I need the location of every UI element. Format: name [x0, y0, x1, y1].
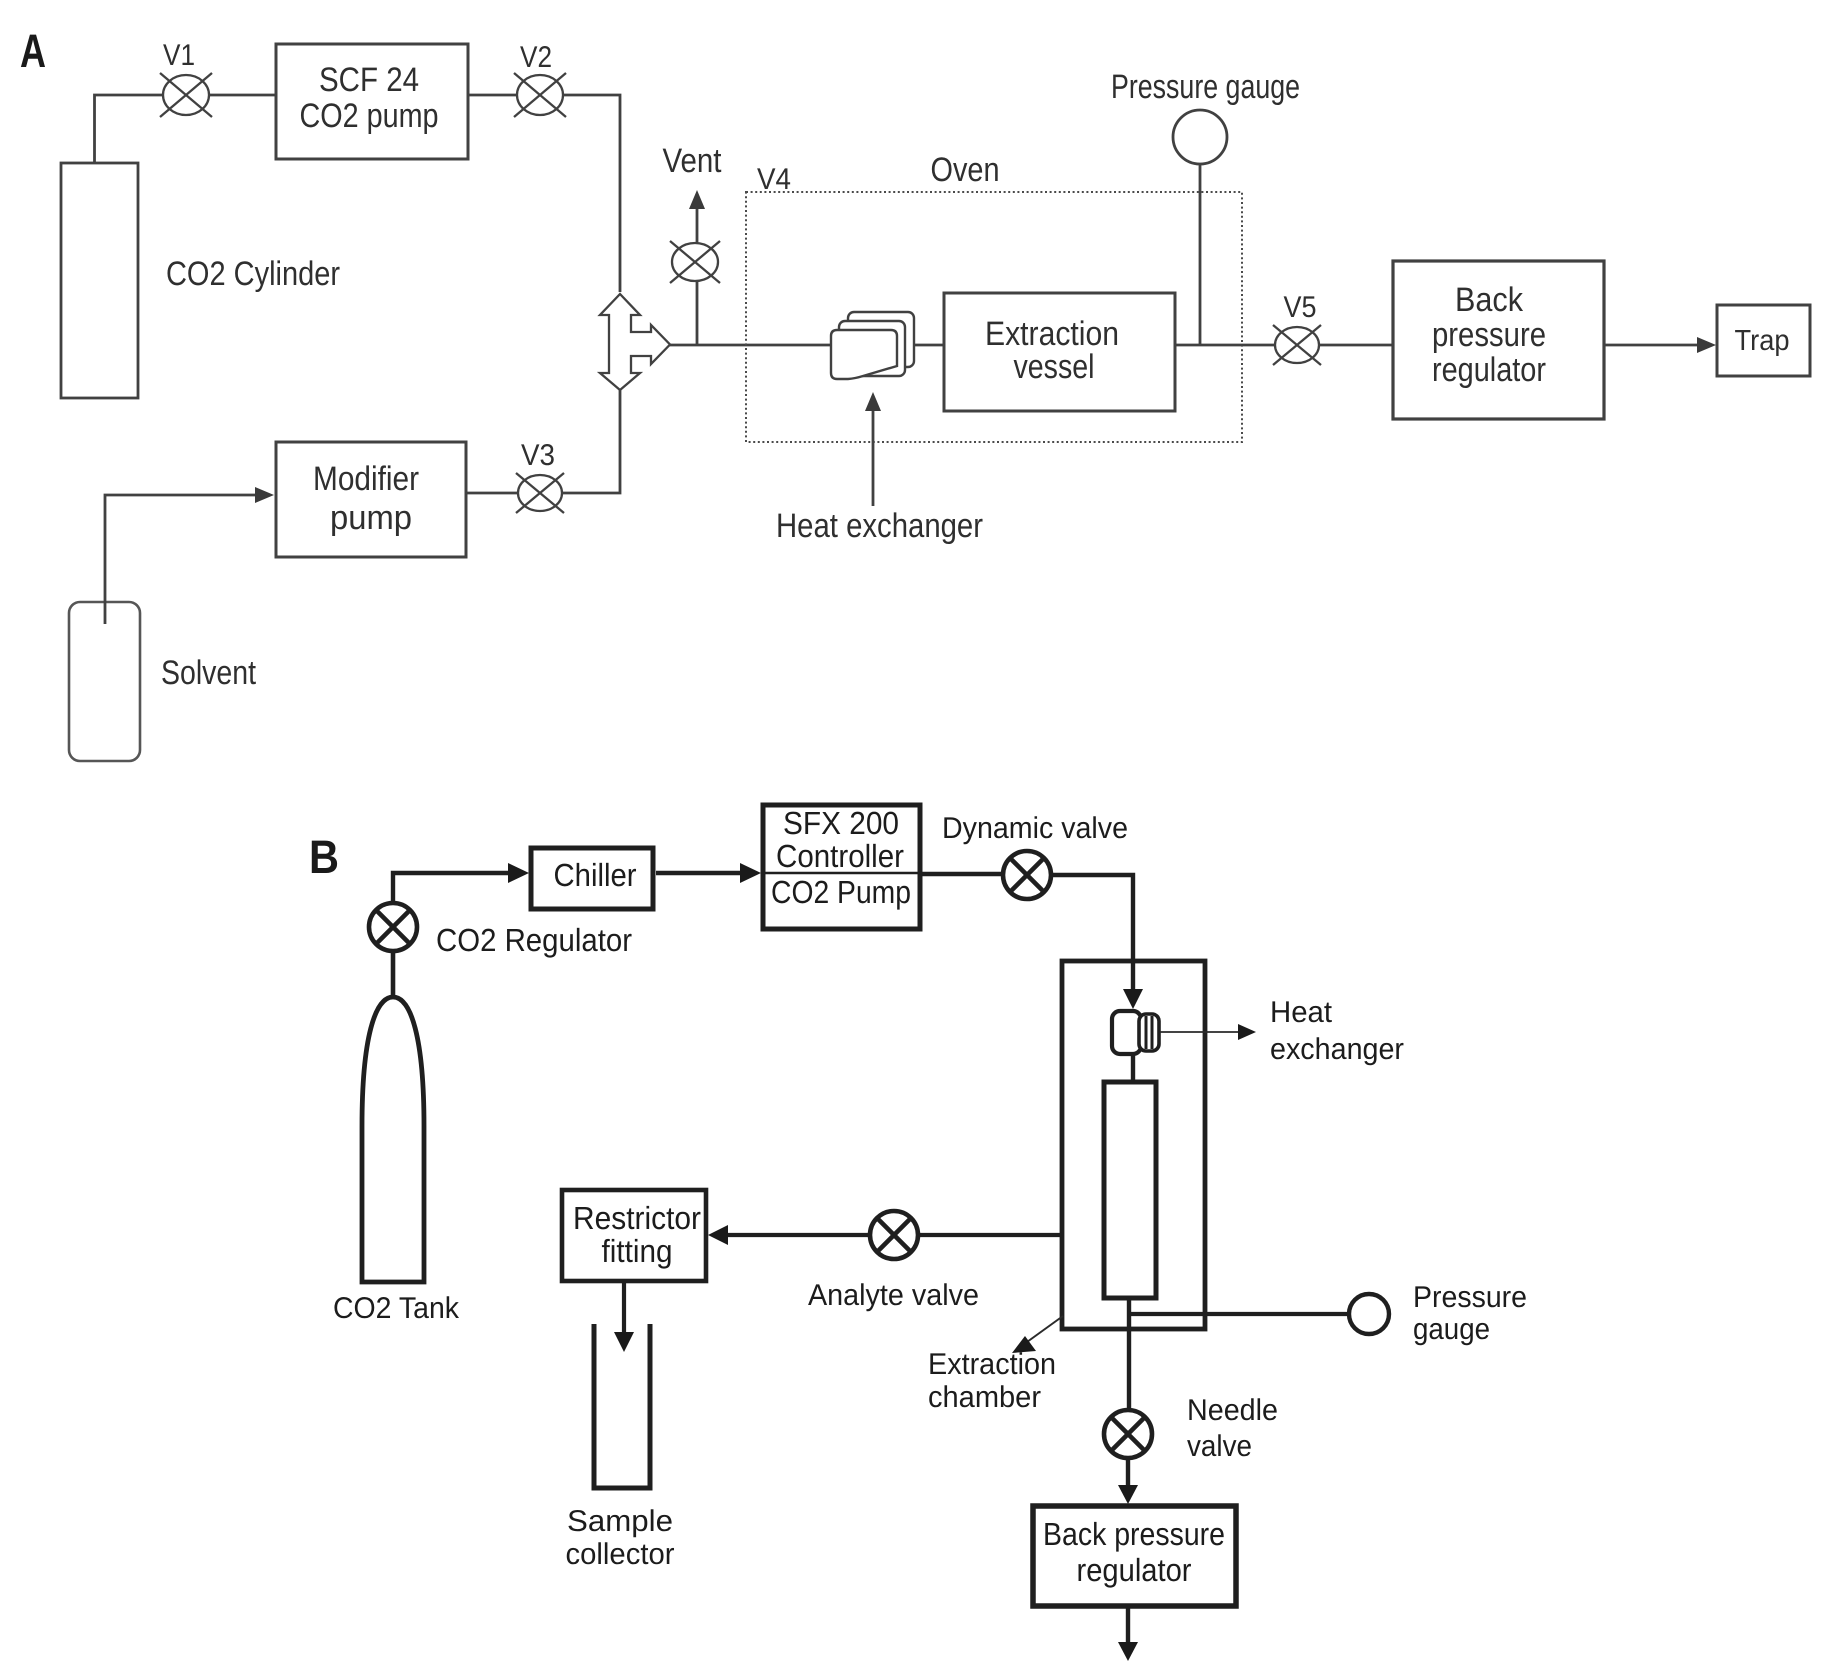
gauge line B — [1129, 1312, 1349, 1316]
wire pump to V3 — [466, 492, 518, 495]
svg-text:CO2 pump: CO2 pump — [300, 97, 439, 135]
valve V1 — [160, 73, 212, 117]
svg-text:Modifier: Modifier — [313, 460, 419, 498]
wire needle valve to regulator B — [1126, 1458, 1130, 1489]
wire chiller to controller — [656, 871, 745, 875]
trap box — [1717, 305, 1810, 376]
svg-text:Pressure: Pressure — [1413, 1281, 1527, 1314]
arrow regulator to trap — [1604, 344, 1700, 347]
wire V5 to regulator — [1319, 344, 1393, 347]
CO2 regulator valve — [369, 903, 417, 951]
svg-text:Analyte valve: Analyte valve — [808, 1279, 979, 1312]
valve V3 — [516, 473, 564, 513]
oven dashed box — [746, 192, 1242, 442]
wire vessel to V5 — [1175, 344, 1276, 347]
CO2 cylinder — [61, 163, 138, 398]
sample collector beaker — [594, 1324, 650, 1488]
svg-text:V2: V2 — [520, 41, 552, 74]
pressure gauge — [1173, 110, 1227, 164]
svg-text:Needle: Needle — [1187, 1394, 1278, 1427]
svg-text:regulator: regulator — [1432, 351, 1546, 389]
restrictor fitting box — [562, 1190, 706, 1281]
pressure gauge B — [1349, 1294, 1389, 1334]
svg-text:V4: V4 — [757, 163, 791, 196]
svg-text:Controller: Controller — [776, 838, 904, 874]
svg-text:fitting: fitting — [602, 1233, 673, 1269]
svg-text:CO2 Cylinder: CO2 Cylinder — [166, 255, 340, 293]
back pressure regulator box B — [1033, 1506, 1236, 1606]
back pressure regulator box A — [1393, 261, 1604, 419]
wire regulator valve to chiller — [393, 873, 512, 903]
vent line — [696, 281, 699, 345]
wire V2 to mixer — [563, 95, 620, 292]
svg-text:V5: V5 — [1284, 291, 1317, 324]
wire heat exchanger to inner vessel — [1131, 1054, 1135, 1082]
SFX 200 controller CO2 pump box — [763, 805, 920, 929]
svg-text:vessel: vessel — [1014, 348, 1095, 386]
svg-text:Extraction: Extraction — [928, 1348, 1056, 1381]
inner extraction vessel — [1104, 1082, 1156, 1298]
wire V1 to pump — [209, 94, 276, 97]
svg-text:pump: pump — [330, 499, 412, 537]
svg-text:SFX 200: SFX 200 — [783, 805, 899, 841]
svg-text:collector: collector — [566, 1538, 675, 1571]
svg-text:regulator: regulator — [1077, 1552, 1192, 1588]
CO2 tank — [362, 997, 424, 1282]
svg-text:Back pressure: Back pressure — [1043, 1516, 1225, 1552]
svg-text:Trap: Trap — [1735, 325, 1790, 357]
vessel outlet wire — [1127, 1298, 1131, 1410]
valve V5 — [1273, 325, 1321, 365]
chiller box — [531, 848, 653, 909]
svg-text:Oven: Oven — [931, 151, 1000, 189]
mixer tee junction — [600, 294, 670, 390]
svg-text:Restrictor: Restrictor — [573, 1200, 701, 1236]
svg-text:V3: V3 — [521, 439, 555, 472]
wire tank to regulator valve — [391, 950, 396, 997]
wire dynamic valve into chamber — [1051, 875, 1133, 992]
heat exchanger pointer arrow — [872, 410, 875, 506]
svg-text:Back: Back — [1455, 281, 1524, 319]
wire cylinder to V1 — [95, 95, 165, 163]
wire controller to dynamic valve — [920, 872, 1004, 876]
svg-text:CO2 Tank: CO2 Tank — [333, 1292, 460, 1325]
analyte line — [723, 1233, 1062, 1237]
wire pump to V2 — [468, 94, 518, 97]
svg-text:chamber: chamber — [928, 1381, 1041, 1414]
svg-text:pressure: pressure — [1432, 316, 1546, 354]
SCF 24 CO2 pump box — [276, 44, 468, 159]
svg-text:CO2 Regulator: CO2 Regulator — [436, 922, 632, 958]
svg-text:Solvent: Solvent — [161, 654, 256, 692]
svg-text:V1: V1 — [163, 39, 195, 72]
pressure gauge stem — [1199, 164, 1202, 345]
svg-text:Chiller: Chiller — [554, 857, 637, 893]
wire V3 to mixer — [563, 390, 620, 493]
svg-text:Pressure gauge: Pressure gauge — [1111, 68, 1300, 106]
svg-text:gauge: gauge — [1413, 1313, 1490, 1346]
svg-text:valve: valve — [1187, 1430, 1252, 1463]
svg-text:Sample: Sample — [567, 1505, 673, 1538]
svg-text:Heat exchanger: Heat exchanger — [776, 507, 983, 545]
heat exchanger B — [1112, 1011, 1159, 1054]
heat exchanger pointer — [1160, 1031, 1240, 1033]
outlet arrow B — [1126, 1606, 1130, 1645]
svg-text:B: B — [309, 830, 339, 883]
wire solvent to modifier pump — [105, 495, 257, 624]
controller divider line — [763, 872, 920, 875]
modifier pump box — [276, 442, 466, 557]
svg-text:A: A — [20, 24, 46, 77]
svg-text:Dynamic valve: Dynamic valve — [942, 812, 1128, 845]
analyte valve — [870, 1211, 918, 1259]
svg-text:exchanger: exchanger — [1270, 1033, 1404, 1066]
solvent bottle — [69, 602, 140, 761]
vent valve — [670, 241, 720, 283]
restrictor outlet arrow — [622, 1281, 626, 1335]
svg-text:SCF 24: SCF 24 — [319, 61, 419, 99]
extraction chamber box — [1062, 961, 1205, 1329]
svg-text:Heat: Heat — [1270, 996, 1333, 1029]
valve V2 — [514, 73, 566, 117]
dynamic valve — [1003, 851, 1051, 899]
heat exchanger A (plate stack) — [831, 312, 914, 379]
vent arrow — [696, 208, 699, 243]
wire mixer to extraction vessel — [669, 344, 945, 347]
needle valve — [1104, 1410, 1152, 1458]
chamber pointer arrow — [1027, 1316, 1063, 1342]
svg-text:CO2 Pump: CO2 Pump — [771, 874, 911, 910]
svg-text:Vent: Vent — [663, 142, 722, 180]
extraction vessel box — [944, 293, 1175, 411]
